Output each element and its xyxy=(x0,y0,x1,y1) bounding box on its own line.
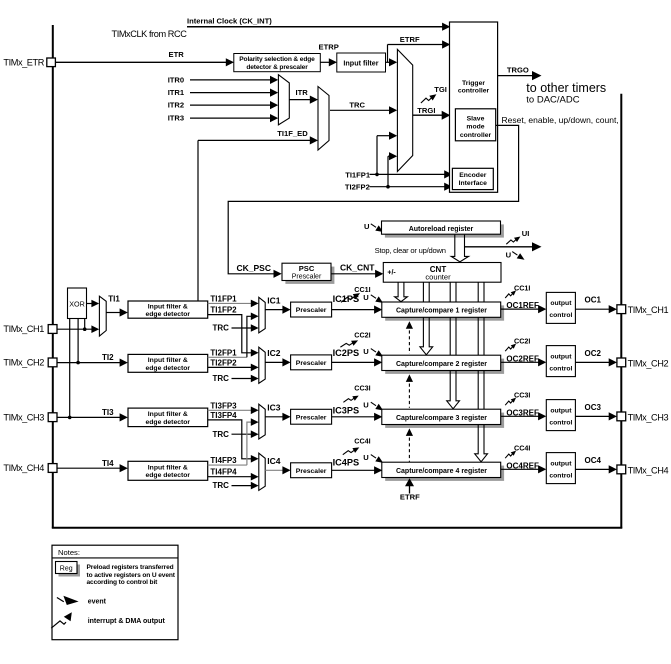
wire TI3 xyxy=(57,416,122,418)
wire ITR2 xyxy=(190,104,271,106)
CC2I interrupt symbol right xyxy=(505,347,513,352)
pad TIMx_CH2 left xyxy=(48,358,57,367)
arrow TI4 into input filter 4 xyxy=(120,464,128,472)
wire TRC into IC4 mux xyxy=(232,485,253,487)
svg-text:CC2I: CC2I xyxy=(354,331,370,340)
arrow OC4REF into output control 4 xyxy=(538,465,546,473)
wire OC3 xyxy=(575,415,610,417)
svg-text:TRC: TRC xyxy=(213,481,230,490)
notes divider xyxy=(52,557,178,559)
wire TRC xyxy=(330,109,391,111)
svg-text:ETRF: ETRF xyxy=(400,35,420,44)
wire TI2FP2 xyxy=(208,366,253,368)
wire ITR1 xyxy=(190,92,271,94)
wire TIMx_CH1 to TI1 mux xyxy=(57,328,93,330)
input filter box xyxy=(337,53,386,72)
input filter & edge detector box 3 xyxy=(128,408,208,427)
svg-text:Autoreload register: Autoreload register xyxy=(409,226,474,233)
reg legend box xyxy=(59,565,81,577)
pad TIMx_CH1 left xyxy=(48,325,57,334)
slave mode controller box xyxy=(455,109,495,141)
arrow TRC into trigger mux xyxy=(389,106,397,114)
svg-text:U: U xyxy=(506,250,512,259)
wire CK_INT xyxy=(187,26,443,28)
ITR mux xyxy=(278,75,289,125)
svg-text:Polarity selection & edge: Polarity selection & edge xyxy=(239,56,315,63)
svg-text:U: U xyxy=(363,401,369,410)
arrow TI2FP2 into encoder interface xyxy=(444,183,452,191)
svg-text:TI1FP2: TI1FP2 xyxy=(210,306,237,315)
pad TIMx_CH2 right xyxy=(617,358,626,367)
svg-text:output: output xyxy=(550,460,572,467)
svg-text:ITR2: ITR2 xyxy=(168,101,184,110)
wire XOR to TI1 mux xyxy=(87,303,94,305)
arrow TRGI into trigger controller xyxy=(442,111,451,120)
svg-text:Internal Clock (CK_INT): Internal Clock (CK_INT) xyxy=(187,16,272,25)
svg-text:detector & prescaler: detector & prescaler xyxy=(246,64,308,71)
wire ETRF into trigger mux xyxy=(386,61,391,63)
svg-text:TIMx_CH1: TIMx_CH1 xyxy=(628,305,669,315)
wire TI2FP2 to trigger mux xyxy=(388,155,391,157)
svg-text:Notes:: Notes: xyxy=(58,548,80,557)
svg-text:TI4FP4: TI4FP4 xyxy=(210,468,237,477)
wire ITR xyxy=(289,99,311,101)
wire OC4REF xyxy=(501,468,540,470)
svg-text:event: event xyxy=(88,599,107,606)
svg-text:Prescaler: Prescaler xyxy=(292,274,322,281)
svg-text:mode: mode xyxy=(466,124,484,131)
outer frame right edge xyxy=(620,94,622,528)
arrow dashed into capture/compare 3 xyxy=(406,428,413,436)
arrow OC3 into pad xyxy=(609,412,617,420)
wire ETRP xyxy=(320,61,331,63)
event legend symbol xyxy=(57,598,64,602)
svg-text:control: control xyxy=(549,312,572,319)
capture/compare 3 register shadow xyxy=(385,413,504,428)
svg-text:TI2FP2: TI2FP2 xyxy=(210,358,237,367)
svg-text:Input filter &: Input filter & xyxy=(148,357,188,364)
arrow TI2FP2 into IC2 mux xyxy=(251,364,259,372)
svg-text:TI4FP3: TI4FP3 xyxy=(210,456,237,465)
wire slave controller to prescaler (reset/enable/clock path) xyxy=(228,125,518,273)
capture/compare 1 register shadow xyxy=(385,305,504,320)
arrow TI2FP2 into trigger mux xyxy=(389,152,397,160)
svg-text:U: U xyxy=(364,222,370,231)
IC3 mux xyxy=(259,404,265,439)
wire TRGO xyxy=(498,75,532,77)
svg-text:TIMx_CH1: TIMx_CH1 xyxy=(3,324,44,334)
autoreload to counter outline arrow xyxy=(451,235,468,262)
arrow TI3FP4 into IC4 mux xyxy=(251,455,259,463)
arrow CK_CNT into CNT counter xyxy=(375,270,383,278)
arrow TI1FP1 into IC1 mux xyxy=(251,300,259,308)
svg-text:interrupt & DMA output: interrupt & DMA output xyxy=(88,618,166,625)
arrow TI1FP1 into trigger mux xyxy=(389,132,397,140)
svg-text:counter: counter xyxy=(425,273,451,282)
svg-text:TRC: TRC xyxy=(349,101,365,110)
wire IC2 xyxy=(265,361,284,363)
arrow ITR3 into ITR mux xyxy=(270,114,278,122)
wire TI2FP1 crossing up vertical xyxy=(247,316,253,357)
arrow ITR2 into ITR mux xyxy=(270,101,278,109)
svg-text:Slave: Slave xyxy=(467,116,485,123)
svg-text:CK_CNT: CK_CNT xyxy=(340,262,375,272)
wire TI2FP2 to encoder xyxy=(370,186,447,188)
wire IC2PS xyxy=(332,361,376,363)
UI interrupt symbol xyxy=(506,239,516,244)
svg-text:CC1I: CC1I xyxy=(514,283,530,292)
svg-text:Prescaler: Prescaler xyxy=(296,468,327,475)
trigger controller box xyxy=(450,22,498,192)
svg-text:according to control bit: according to control bit xyxy=(87,579,159,586)
wire TRC into IC1 mux xyxy=(232,327,253,329)
outer frame left edge xyxy=(52,25,54,528)
wire TRC into IC2 mux xyxy=(232,378,253,380)
wire CK_CNT xyxy=(331,273,377,275)
svg-text:Prescaler: Prescaler xyxy=(296,360,327,367)
XOR box xyxy=(68,288,87,319)
pad TIMx_CH3 right xyxy=(617,412,626,421)
wire TI4FP3 crossing up horizontal xyxy=(208,464,247,466)
arrow TRC into IC1 mux xyxy=(251,324,259,332)
svg-text:IC4: IC4 xyxy=(267,456,281,466)
svg-text:output: output xyxy=(550,353,572,360)
svg-text:TRC: TRC xyxy=(213,324,230,333)
svg-text:CC2I: CC2I xyxy=(514,337,530,346)
prescaler box 2 xyxy=(291,355,332,370)
node TI2FP2 junction xyxy=(386,185,390,189)
arrow TI1 into input filter 1 xyxy=(120,308,128,316)
arrow IC3 into prescaler 3 xyxy=(282,413,290,421)
TGI interrupt symbol xyxy=(421,98,432,103)
arrow TI4FP4 into IC4 mux xyxy=(251,473,259,481)
svg-text:ETRF: ETRF xyxy=(400,493,420,502)
arrow TRC into IC3 mux xyxy=(251,430,259,438)
wire XOR input 1 riser xyxy=(84,319,86,330)
wire TI2FP1 crossing up horizontal xyxy=(208,356,247,358)
svg-text:Capture/compare 3 register: Capture/compare 3 register xyxy=(396,415,487,422)
arrow TRC into IC2 mux xyxy=(251,375,259,383)
svg-text:Reset, enable, up/down, count,: Reset, enable, up/down, count, xyxy=(502,115,619,125)
wire OC3REF xyxy=(501,415,540,417)
wire IC1 xyxy=(265,309,284,311)
CNT counter box xyxy=(383,263,501,283)
wire ITR3 xyxy=(190,117,271,119)
svg-text:edge detector: edge detector xyxy=(146,365,191,372)
wire IC1PS xyxy=(332,309,376,311)
svg-text:edge detector: edge detector xyxy=(146,419,191,426)
svg-text:control: control xyxy=(549,472,572,479)
arrow IC2 into prescaler 2 xyxy=(282,358,290,366)
prescaler box 4 xyxy=(291,463,332,478)
pad TIMx_CH1 right xyxy=(617,305,626,314)
svg-text:ITR3: ITR3 xyxy=(168,114,184,123)
input filter & edge detector box 4 xyxy=(128,461,208,480)
arrow ITR into TRC mux xyxy=(310,96,318,104)
IC1 mux xyxy=(259,297,265,333)
wire TI4FP3 crossing up vertical xyxy=(247,422,253,465)
arrow TI1FP2 into IC2 mux xyxy=(251,349,259,357)
arrow XOR into TI1 mux xyxy=(91,300,99,308)
wire TI1FP1 to encoder xyxy=(370,173,447,175)
wire IC4PS xyxy=(332,469,376,471)
svg-text:TRGO: TRGO xyxy=(507,66,529,75)
svg-text:U: U xyxy=(363,347,369,356)
CC1I interrupt symbol right xyxy=(505,293,513,298)
svg-text:OC3: OC3 xyxy=(585,403,602,412)
svg-text:Trigger: Trigger xyxy=(462,80,485,87)
arrow IC3PS into capture/compare 3 xyxy=(374,413,382,421)
svg-text:controller: controller xyxy=(460,132,492,139)
wire OC2REF xyxy=(501,361,540,363)
CC3I interrupt symbol right xyxy=(505,401,513,406)
node XOR input 2 junction xyxy=(76,361,80,365)
wire TI4FP4 xyxy=(208,476,253,478)
wire IC4 xyxy=(265,469,284,471)
svg-text:TRGI: TRGI xyxy=(417,106,435,115)
svg-text:TI2FP2: TI2FP2 xyxy=(345,183,370,192)
wire TI1FP1 riser xyxy=(376,136,378,175)
svg-text:TI2FP1: TI2FP1 xyxy=(210,348,237,357)
arrow TIMx_CH1 into TI1 mux xyxy=(91,325,99,333)
CC4I interrupt symbol right xyxy=(505,454,513,459)
wire TI1F_ED xyxy=(198,139,312,141)
svg-text:Capture/compare 4 register: Capture/compare 4 register xyxy=(396,468,487,475)
wire IC3PS xyxy=(332,416,376,418)
svg-text:Interface: Interface xyxy=(459,180,488,187)
arrow TI2FP1 into IC1 mux xyxy=(251,313,259,321)
svg-text:CC4I: CC4I xyxy=(514,444,530,453)
svg-text:CK_PSC: CK_PSC xyxy=(237,263,271,273)
prescaler box 1 xyxy=(291,302,332,317)
svg-text:TRC: TRC xyxy=(213,374,230,383)
wire OC4 xyxy=(575,468,610,470)
arrow CK_PSC into PSC prescaler xyxy=(274,270,282,278)
wire ETRF to capture/compare 4 xyxy=(409,482,411,494)
svg-text:PSC: PSC xyxy=(299,264,315,273)
wire OC1REF xyxy=(501,308,540,310)
svg-text:IC1: IC1 xyxy=(267,295,281,305)
arrow TRGO xyxy=(532,71,542,80)
svg-text:Prescaler: Prescaler xyxy=(296,414,327,421)
svg-text:ITR: ITR xyxy=(296,88,309,97)
svg-text:TI3FP3: TI3FP3 xyxy=(210,401,237,410)
wire ETRF riser xyxy=(387,45,389,63)
interrupt legend symbol xyxy=(51,621,66,628)
svg-text:OC4: OC4 xyxy=(585,456,602,465)
arrow TI2 into input filter 2 xyxy=(120,359,128,367)
output control box 2 xyxy=(546,346,575,377)
autoreload register box xyxy=(385,224,504,237)
svg-text:TI3: TI3 xyxy=(102,408,114,417)
svg-text:IC4PS: IC4PS xyxy=(333,458,360,468)
svg-text:output: output xyxy=(550,407,572,414)
arrow IC4PS into capture/compare 4 xyxy=(374,466,382,474)
arrow U event right xyxy=(532,242,542,251)
svg-text:Preload registers transferred: Preload registers transferred xyxy=(87,564,174,571)
CC3I interrupt symbol left xyxy=(343,398,354,402)
IC2 mux xyxy=(259,347,265,383)
svg-text:IC3PS: IC3PS xyxy=(333,406,360,416)
wire OC1 xyxy=(575,308,610,310)
wire TI1 xyxy=(106,312,121,314)
notes box xyxy=(52,545,178,640)
svg-text:Stop, clear or up/down: Stop, clear or up/down xyxy=(375,246,446,255)
CC1I interrupt symbol left xyxy=(341,297,354,303)
arrow TI4FP3 into IC3 mux xyxy=(251,418,259,426)
pad TIMx_CH4 right xyxy=(617,465,626,474)
prescaler box 3 xyxy=(291,409,332,424)
svg-text:ITR0: ITR0 xyxy=(168,75,184,84)
svg-text:OC1: OC1 xyxy=(585,296,602,305)
arrow OC4 into pad xyxy=(609,465,617,473)
svg-text:Input filter &: Input filter & xyxy=(148,303,188,310)
svg-text:Reg: Reg xyxy=(60,565,73,572)
svg-text:TI1F_ED: TI1F_ED xyxy=(277,129,308,138)
arrow TI1FP1 into encoder interface xyxy=(444,170,452,178)
capture/compare 2 register shadow xyxy=(385,359,504,374)
arrow ITR1 into ITR mux xyxy=(270,89,278,97)
TRC mux xyxy=(318,87,329,151)
svg-text:UI: UI xyxy=(522,229,530,238)
counter to capture/compare 1 outline arrow xyxy=(395,282,408,301)
svg-text:TI4: TI4 xyxy=(102,459,114,468)
svg-text:CC3I: CC3I xyxy=(514,391,530,400)
counter to capture/compare 4 outline arrow xyxy=(475,282,488,462)
svg-text:ETRP: ETRP xyxy=(319,43,339,52)
wire TI2 xyxy=(57,362,122,364)
svg-text:CC3I: CC3I xyxy=(354,384,370,393)
capture/compare 1 register box xyxy=(382,302,501,317)
output control box 1 xyxy=(546,292,575,323)
wire ITR0 xyxy=(190,79,271,81)
trigger mux xyxy=(397,49,412,171)
wire TI1FP1 xyxy=(208,302,253,304)
pad TIMx_ETR xyxy=(47,58,56,67)
wire TRC into IC3 mux xyxy=(232,433,253,435)
wire OC2 xyxy=(575,361,610,363)
outer frame bottom edge xyxy=(52,527,623,529)
pad TIMx_CH3 left xyxy=(48,413,57,422)
svg-text:XOR: XOR xyxy=(69,299,85,308)
wire XOR input 3 riser xyxy=(69,319,71,418)
svg-text:TIMx_ETR: TIMx_ETR xyxy=(3,57,44,67)
arrow TI3FP3 into IC3 mux xyxy=(251,407,259,415)
wire TI1F_ED riser xyxy=(197,140,199,301)
dashed compare line segment 3 xyxy=(408,432,410,462)
wire TRGI xyxy=(413,114,444,116)
svg-text:+/-: +/- xyxy=(387,269,396,276)
svg-text:U: U xyxy=(363,453,369,462)
wire U event to right xyxy=(465,246,534,248)
node TI1FP1 junction xyxy=(375,173,379,177)
svg-text:TIMx_CH3: TIMx_CH3 xyxy=(628,412,669,422)
capture/compare 4 register box xyxy=(382,462,501,477)
svg-text:TI1FP1: TI1FP1 xyxy=(210,294,237,303)
arrow CK_INT into trigger controller xyxy=(442,23,450,31)
svg-text:Capture/compare 2 register: Capture/compare 2 register xyxy=(396,361,487,368)
IC4 mux xyxy=(259,453,265,490)
svg-text:IC2: IC2 xyxy=(267,348,281,358)
wire TI3FP3 xyxy=(208,409,253,411)
encoder interface box xyxy=(452,168,493,189)
wire TI1FP2 crossing down xyxy=(208,315,253,353)
svg-text:controller: controller xyxy=(458,88,490,95)
wire ETRF to trigger controller xyxy=(388,44,445,46)
output control box 3 xyxy=(546,400,575,431)
svg-text:TIMx_CH3: TIMx_CH3 xyxy=(3,412,44,422)
svg-text:OC2: OC2 xyxy=(585,349,602,358)
svg-text:TIMx_CH2: TIMx_CH2 xyxy=(628,358,669,368)
svg-text:TGI: TGI xyxy=(434,85,447,94)
CC4I interrupt symbol left xyxy=(343,450,355,455)
counter to capture/compare 2 outline arrow xyxy=(420,282,433,355)
arrow TRC into IC4 mux xyxy=(251,482,259,490)
svg-text:to active registers on U event: to active registers on U event xyxy=(87,572,176,579)
svg-text:TI1: TI1 xyxy=(108,295,120,304)
svg-text:CC4I: CC4I xyxy=(354,437,370,446)
svg-text:TI3FP4: TI3FP4 xyxy=(210,411,237,420)
arrow ETRF into capture/compare 4 xyxy=(405,478,414,486)
svg-text:Input filter &: Input filter & xyxy=(148,465,188,472)
svg-text:TRC: TRC xyxy=(213,430,230,439)
arrow TI3 into input filter 3 xyxy=(120,413,128,421)
svg-text:output: output xyxy=(550,300,572,307)
svg-text:U: U xyxy=(363,293,369,302)
arrow IC2PS into capture/compare 2 xyxy=(374,358,382,366)
input filter & edge detector box 2 xyxy=(128,354,208,372)
svg-text:ITR1: ITR1 xyxy=(168,88,185,97)
capture/compare 4 register shadow xyxy=(385,466,504,481)
capture/compare 3 register box xyxy=(382,409,501,424)
arrow ETRP into input filter xyxy=(329,58,337,66)
svg-text:control: control xyxy=(549,419,572,426)
wire TI2FP2 riser xyxy=(387,156,389,187)
arrow ETRF into trigger mux xyxy=(389,58,397,66)
svg-text:Encoder: Encoder xyxy=(459,172,487,179)
arrow ETR into polarity box xyxy=(226,58,234,66)
svg-text:to DAC/ADC: to DAC/ADC xyxy=(526,94,579,105)
wire TI3FP4 crossing down xyxy=(208,420,253,459)
wire ETR xyxy=(55,61,227,63)
svg-text:TIMx_CH4: TIMx_CH4 xyxy=(3,463,44,473)
arrow OC1REF into output control 1 xyxy=(538,305,546,313)
dashed compare line segment 2 xyxy=(408,378,410,408)
wire IC3 xyxy=(265,416,284,418)
arrow IC4 into prescaler 4 xyxy=(282,466,290,474)
arrow ETRF into trigger controller xyxy=(442,40,450,48)
svg-text:Capture/compare 1 register: Capture/compare 1 register xyxy=(396,308,487,315)
node XOR input 1 junction xyxy=(83,327,87,331)
arrow OC3REF into output control 3 xyxy=(538,412,546,420)
svg-text:Input filter &: Input filter & xyxy=(148,411,188,418)
svg-text:Prescaler: Prescaler xyxy=(296,307,327,314)
svg-text:TI2: TI2 xyxy=(102,353,114,362)
arrow IC1 into prescaler 1 xyxy=(282,306,290,314)
arrow dashed into capture/compare 1 xyxy=(406,321,413,329)
input filter & edge detector box 1 xyxy=(128,301,208,318)
CC2I interrupt symbol left xyxy=(340,343,352,347)
node XOR input 3 junction xyxy=(68,416,72,420)
TI1 mux xyxy=(99,296,106,336)
capture/compare 2 register box xyxy=(382,355,501,370)
svg-text:control: control xyxy=(549,365,572,372)
arrow TI1F_ED into TRC mux xyxy=(310,136,318,144)
svg-text:IC3: IC3 xyxy=(267,403,281,413)
polarity selection box xyxy=(234,54,320,72)
svg-text:edge detector: edge detector xyxy=(146,311,191,318)
arrow OC2REF into output control 2 xyxy=(538,358,546,366)
